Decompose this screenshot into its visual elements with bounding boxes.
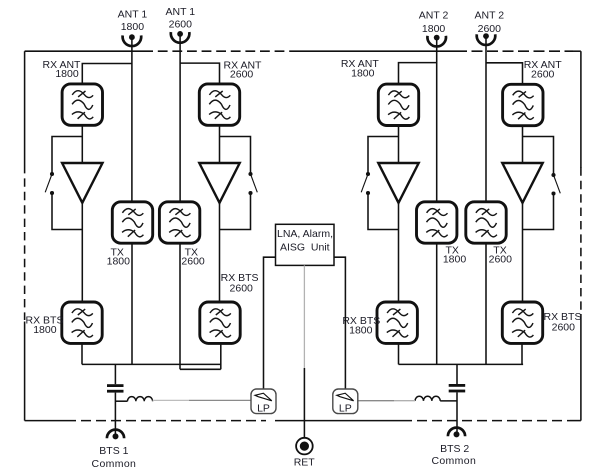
bus BTS2 combining line — [399, 363, 524, 365]
svg-text:1800: 1800 — [121, 21, 145, 33]
wire TX 2600 B to BTS2 bus — [485, 243, 487, 364]
enclosure (TMA unit housing outline, dashed/solid) — [25, 51, 581, 420]
label BTS1 — [92, 445, 137, 470]
svg-text:1800: 1800 — [351, 68, 375, 80]
capacitor C2 (DC block, BTS2) — [449, 384, 466, 392]
port ANT2-1800 antenna symbol — [427, 35, 446, 47]
label RX BTS 2600 B — [544, 311, 582, 334]
wire AISG unit to RET port (gray) — [303, 265, 305, 368]
bypass wire around U1 — [52, 137, 82, 230]
wire AISG unit to LP1 — [264, 257, 276, 389]
svg-text:Common: Common — [92, 458, 137, 470]
node ANT2-1800 label — [419, 10, 449, 36]
port ANT1-2600 antenna symbol — [171, 31, 190, 43]
svg-text:1800: 1800 — [443, 254, 467, 266]
low-pass unit LP1 — [251, 389, 276, 415]
wire TX 2600 A to BTS1 bus step — [179, 243, 181, 369]
port ANT1-1800 antenna symbol — [123, 34, 142, 46]
svg-text:1800: 1800 — [107, 256, 131, 268]
wire RX BTS 1800 A to BTS1 bus — [81, 343, 83, 364]
filter RX ANT 2600 A — [199, 84, 239, 125]
filter RX BTS 1800 B — [377, 302, 417, 343]
svg-text:ANT 1: ANT 1 — [166, 6, 196, 18]
label BTS2 — [431, 443, 476, 467]
svg-text:2600: 2600 — [531, 69, 555, 81]
wire AISG unit to LP2 — [334, 257, 345, 389]
switch S3 (bypass U3) — [361, 172, 370, 195]
svg-text:LNA, Alarm,: LNA, Alarm, — [277, 228, 333, 240]
op-amp LNA U3 — [378, 163, 418, 203]
filter TX 1800 A — [112, 202, 152, 243]
wire C2 node to coil L2 — [440, 400, 457, 402]
svg-text:Common: Common — [431, 455, 476, 467]
svg-text:1800: 1800 — [33, 324, 57, 336]
svg-text:2600: 2600 — [230, 283, 254, 295]
switch S1 (bypass U1) — [45, 172, 54, 195]
label TX 2600 B — [489, 245, 513, 266]
bus BTS1 step segment — [180, 368, 221, 370]
label TX 1800 B — [443, 245, 467, 266]
LNA/Alarm/AISG control unit U5 — [276, 224, 335, 265]
filter RX ANT 1800 A — [62, 84, 102, 125]
inductor L1 (bias tee, BTS1) — [128, 397, 153, 402]
wire ANT1-1800 feeder (antenna to TX1800A) — [131, 37, 133, 201]
bus BTS1 combining line — [82, 363, 221, 365]
filter RX ANT 1800 B — [378, 84, 418, 125]
svg-text:2600: 2600 — [230, 69, 254, 81]
switch S4 (bypass U4) — [551, 173, 560, 196]
wire L1 to LP1 (AISG path, gray) — [153, 399, 251, 401]
wire LP2 to L2 (AISG path, gray) — [358, 400, 415, 402]
svg-text:RET: RET — [294, 457, 316, 469]
label RX ANT 2600 A — [224, 59, 263, 80]
svg-text:2600: 2600 — [169, 19, 193, 31]
port ANT2-2600 antenna symbol — [477, 33, 496, 45]
svg-text:ANT 2: ANT 2 — [419, 10, 449, 22]
wire RX ANT 2600 B filter to LNA U4 — [522, 126, 524, 163]
wire U2 output to RX BTS 2600 A — [219, 204, 221, 303]
op-amp LNA U2 — [199, 163, 239, 203]
wire RX ANT 2600 A filter to LNA U2 — [219, 125, 221, 163]
svg-text:ANT 1: ANT 1 — [118, 8, 148, 20]
wire C1 node to coil L1 — [115, 400, 127, 402]
wire U4 output to RX BTS 2600 B — [522, 204, 524, 303]
filter RX BTS 1800 A — [62, 302, 102, 343]
label RX BTS 2600 A — [221, 272, 259, 295]
svg-text:2600: 2600 — [552, 322, 576, 334]
port RET connector symbol — [296, 438, 313, 455]
bypass wire around U2 — [220, 137, 251, 230]
wire branch to RX ANT 2600 B filter — [486, 63, 523, 85]
wire ANT2-2600 feeder (antenna to TX2600B) — [485, 36, 487, 201]
wire U1 output to RX BTS 1800 A — [81, 204, 83, 303]
node ANT2-2600 label — [475, 10, 505, 36]
label RX ANT 1800 A — [43, 59, 82, 80]
wire RX BTS 2600 A to BTS1 bus step — [220, 343, 222, 369]
bypass wire around U3 — [368, 137, 399, 230]
label RX ANT 1800 B — [341, 58, 380, 80]
svg-text:2600: 2600 — [489, 254, 513, 266]
wire C2 to BTS2 port — [456, 392, 458, 433]
wire TX 1800 B to BTS2 bus — [436, 243, 438, 364]
wire RX BTS 1800 B to BTS2 bus — [398, 344, 400, 364]
filter RX ANT 2600 B — [503, 84, 543, 125]
svg-text:1800: 1800 — [349, 325, 373, 337]
op-amp LNA U1 — [62, 163, 102, 203]
wire RET below enclosure — [303, 368, 305, 438]
wire RX BTS 2600 B to BTS2 bus — [521, 344, 523, 364]
wire branch to RX ANT 1800 A filter — [82, 64, 132, 85]
wire branch to RX ANT 2600 A filter — [180, 63, 219, 84]
svg-text:AISG Unit: AISG Unit — [280, 242, 330, 254]
wire RX ANT 1800 B filter to LNA U3 — [398, 126, 400, 164]
node ANT1-1800 label — [118, 8, 148, 33]
svg-text:1800: 1800 — [422, 23, 446, 35]
filter TX 1800 B — [417, 202, 457, 243]
wire RX ANT 1800 A filter to LNA U1 — [81, 125, 83, 163]
wire branch to RX ANT 1800 B filter — [399, 63, 437, 84]
filter RX BTS 2600 A — [200, 302, 240, 343]
wire U3 output to RX BTS 1800 B — [398, 204, 400, 303]
wire bus to capacitor C2 — [456, 364, 458, 384]
wire TX 1800 A to BTS1 bus — [131, 243, 133, 364]
svg-text:ANT 2: ANT 2 — [475, 10, 505, 22]
svg-text:BTS 2: BTS 2 — [440, 443, 469, 455]
label RX ANT 2600 B — [524, 59, 563, 81]
svg-text:2600: 2600 — [478, 23, 502, 35]
label TX 2600 A — [181, 247, 205, 268]
node ANT1-2600 label — [166, 6, 196, 31]
op-amp LNA U4 — [502, 163, 542, 203]
filter TX 2600 A — [159, 202, 199, 243]
port BTS1 symbol — [107, 430, 124, 440]
label RX BTS 1800 A — [26, 315, 64, 337]
capacitor C1 (DC block, BTS1) — [107, 384, 124, 392]
label TX 1800 A — [107, 247, 131, 268]
inductor L2 (bias tee, BTS2) — [415, 396, 440, 401]
low-pass unit LP2 — [333, 389, 358, 415]
filter RX BTS 2600 B — [502, 302, 542, 343]
filter TX 2600 B — [466, 202, 506, 243]
wire C1 to BTS1 port — [114, 393, 116, 436]
svg-text:BTS 1: BTS 1 — [99, 445, 128, 457]
switch S2 (bypass U2) — [248, 172, 257, 195]
wire ANT2-1800 feeder (antenna to TX1800B) — [436, 38, 438, 202]
port BTS2 symbol — [448, 428, 465, 438]
label RX BTS 1800 B — [342, 315, 380, 337]
bypass wire around U4 — [523, 137, 554, 230]
svg-text:1800: 1800 — [55, 68, 79, 80]
wire ANT1-2600 feeder (antenna to TX2600A) — [179, 34, 181, 202]
svg-text:2600: 2600 — [181, 256, 205, 268]
wire bus to capacitor C1 — [114, 364, 116, 384]
